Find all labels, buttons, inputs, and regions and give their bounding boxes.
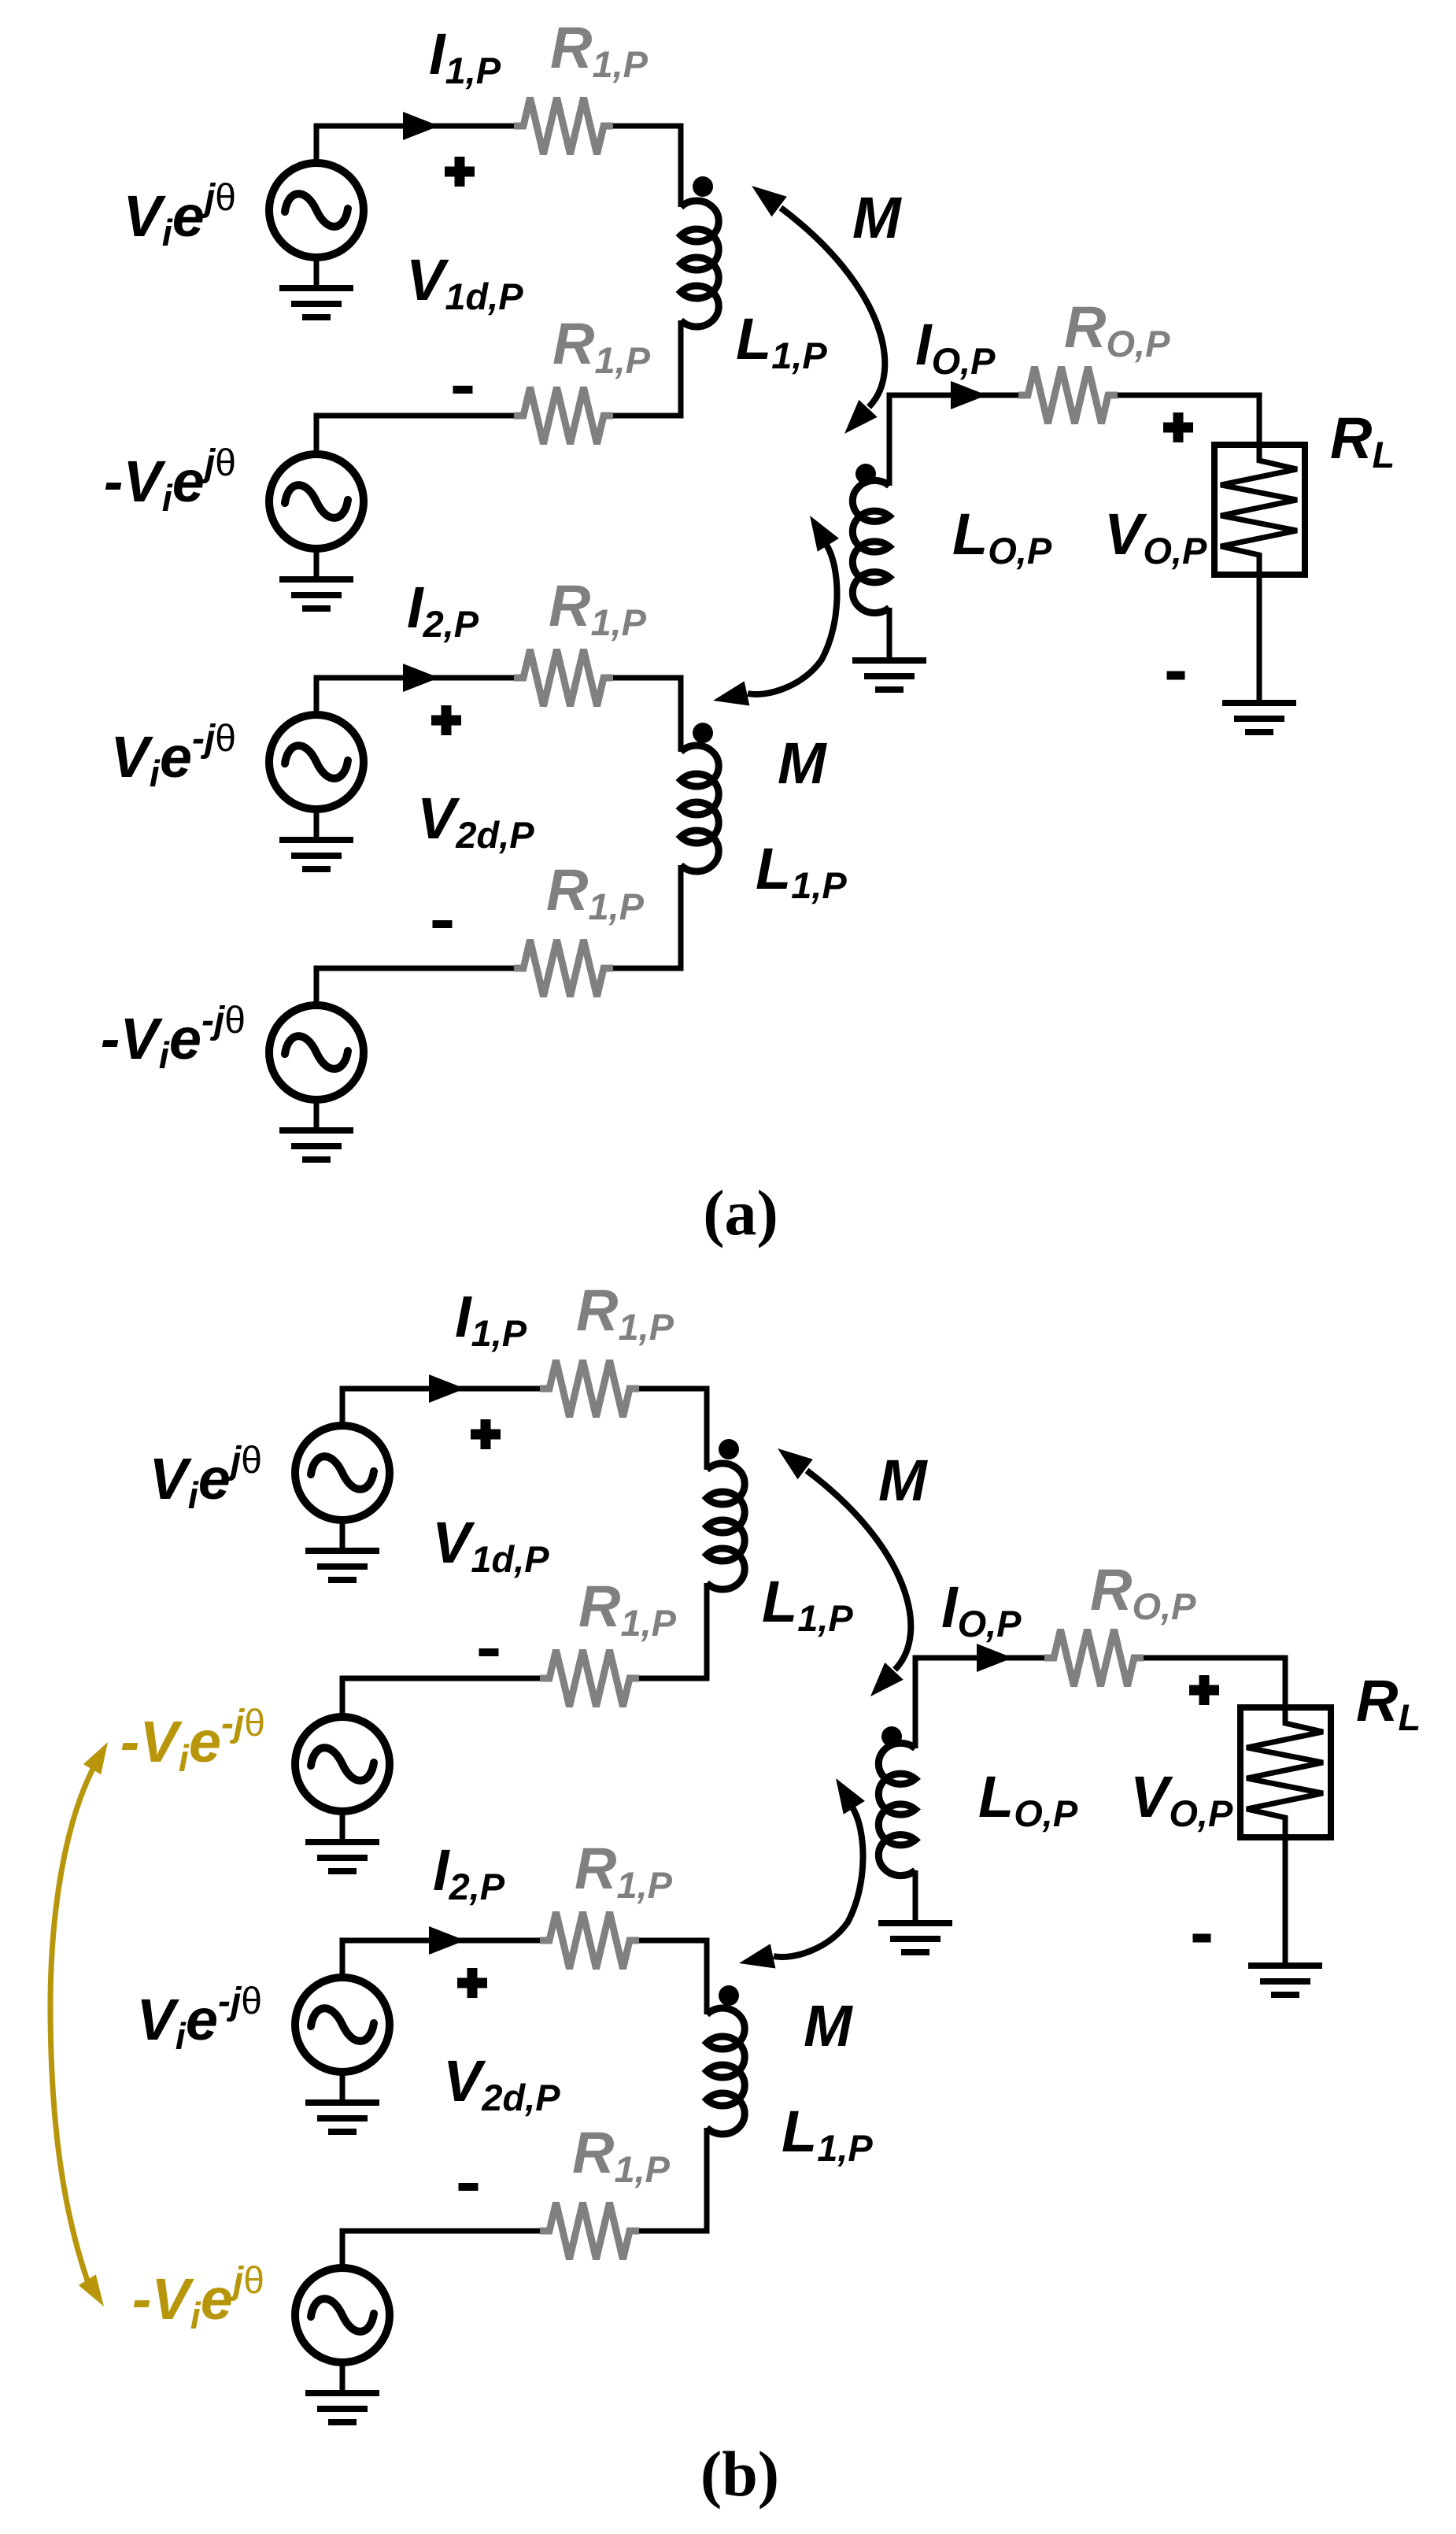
- svg-text:(b): (b): [700, 2438, 779, 2510]
- svg-text:(a): (a): [703, 1177, 778, 1249]
